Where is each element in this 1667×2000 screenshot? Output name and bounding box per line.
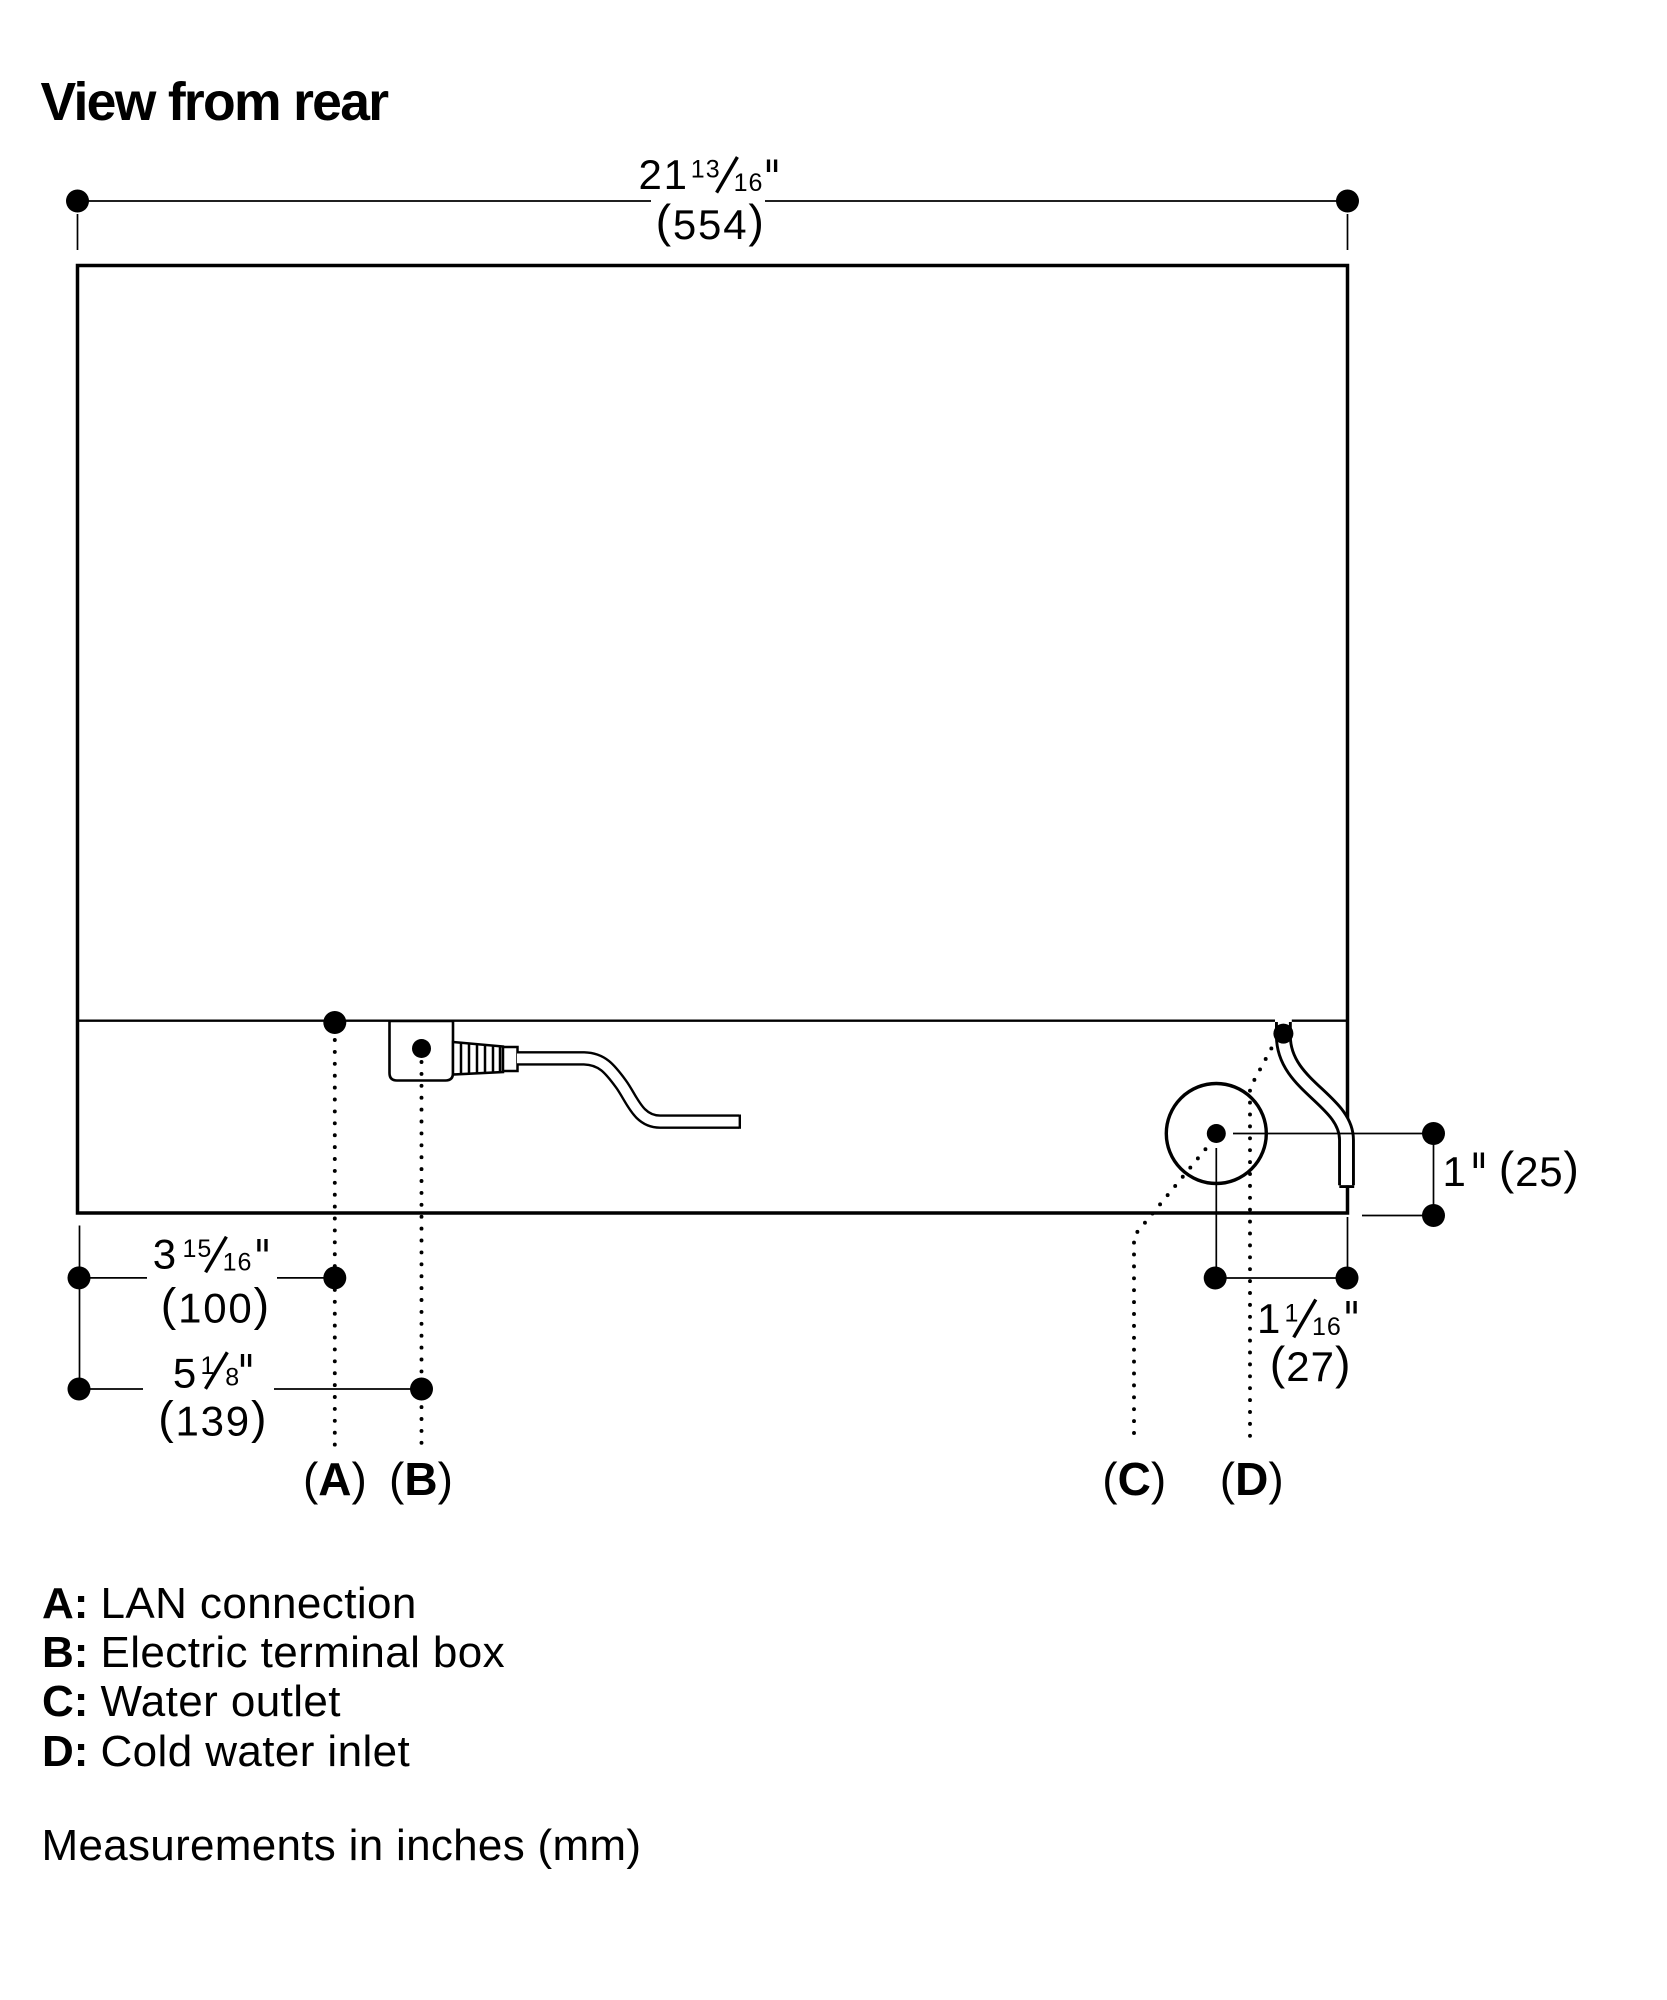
svg-text:(A): (A) — [303, 1453, 367, 1505]
extension line right — [1347, 214, 1349, 250]
power cable end cap — [739, 1115, 741, 1129]
dimension 21 13/16 (554) line left segment — [78, 200, 652, 202]
dim 3 15/16 left dot — [68, 1266, 91, 1289]
svg-text:(C): (C) — [1102, 1453, 1166, 1505]
svg-text:3: 3 — [153, 1231, 176, 1278]
gland ribs — [461, 1043, 500, 1074]
dim 1 inch vertical line — [1433, 1134, 1435, 1216]
svg-text:1: 1 — [1257, 1295, 1280, 1342]
dim 1 inch upper dot — [1422, 1122, 1445, 1145]
svg-text:1: 1 — [1285, 1300, 1299, 1328]
svg-text:1: 1 — [1443, 1148, 1466, 1195]
svg-text:(139): (139) — [158, 1391, 268, 1444]
node D dot on hose — [1273, 1024, 1293, 1044]
svg-text:Measurements in inches (mm): Measurements in inches (mm) — [42, 1821, 642, 1870]
dim 5 1/8 left dot — [68, 1378, 91, 1401]
extension line left — [77, 214, 79, 250]
dimension text 5 1/8" — [173, 1350, 250, 1397]
svg-text:(D): (D) — [1220, 1453, 1284, 1505]
dimension text 1 1/16" — [1257, 1295, 1355, 1342]
svg-text:(554): (554) — [656, 195, 766, 248]
dimension 21 13/16 (554) line right segment — [765, 200, 1348, 202]
dim 1 1/16 left extension from circle center — [1215, 1148, 1217, 1278]
leader D dotted — [1250, 1038, 1277, 1444]
power cable — [517, 1058, 739, 1121]
svg-text:C:: C: — [42, 1677, 88, 1726]
svg-text:8: 8 — [225, 1364, 239, 1392]
svg-text:21: 21 — [639, 151, 689, 198]
leader C dotted — [1134, 1140, 1213, 1444]
dim 5 1/8 line segments — [80, 1388, 422, 1390]
dim 1 inch bottom reference line — [1362, 1215, 1433, 1217]
water outlet C center dot — [1207, 1124, 1226, 1143]
dim 1 1/16 right dot — [1336, 1267, 1359, 1290]
dim 3 15/16 line segments — [80, 1277, 335, 1279]
terminal box B dot — [412, 1039, 431, 1058]
svg-text:D:: D: — [42, 1727, 88, 1776]
dimension text 21 13/16" — [639, 151, 776, 198]
leader B dotted — [420, 1062, 424, 1447]
svg-text:View from rear: View from rear — [41, 73, 390, 132]
svg-text:16: 16 — [223, 1249, 253, 1277]
water outlet C circle — [1166, 1084, 1266, 1184]
dim 1 1/16 left dot — [1204, 1267, 1227, 1290]
dim 3 15/16 right dot — [323, 1266, 346, 1289]
terminal box B — [390, 1021, 454, 1081]
dimension end dot left — [66, 190, 89, 213]
svg-text:13: 13 — [691, 156, 721, 184]
appliance rear panel outline — [78, 266, 1348, 1214]
svg-text:A:: A: — [42, 1579, 88, 1628]
cable gland ribbed connector — [453, 1042, 503, 1075]
svg-text:Electric terminal box: Electric terminal box — [101, 1628, 506, 1677]
dim 1 inch lower dot — [1422, 1204, 1445, 1227]
svg-text:B:: B: — [42, 1628, 88, 1677]
node A (LAN connection) dot — [323, 1011, 346, 1034]
left lower extension line — [79, 1226, 81, 1390]
svg-text:(100): (100) — [161, 1279, 271, 1332]
dim 5 1/8 right dot — [410, 1378, 433, 1401]
svg-text:LAN connection: LAN connection — [101, 1579, 417, 1628]
svg-text:(27): (27) — [1270, 1337, 1352, 1390]
divider line lower panel — [78, 1020, 1348, 1022]
hose tip — [1339, 1185, 1354, 1188]
svg-text:Cold water inlet: Cold water inlet — [101, 1727, 411, 1776]
dimension text 3 15/16" — [153, 1231, 266, 1278]
dim 1 1/16 line — [1215, 1277, 1347, 1279]
dimension text 1" (25) — [1443, 1142, 1580, 1195]
dimension end dot right — [1336, 190, 1359, 213]
gland collar — [503, 1047, 518, 1071]
svg-text:16: 16 — [734, 169, 764, 197]
svg-text:15: 15 — [183, 1235, 213, 1263]
dim line C to right — [1233, 1133, 1434, 1135]
svg-text:(25): (25) — [1499, 1142, 1580, 1195]
svg-text:(B): (B) — [389, 1453, 453, 1505]
svg-text:Water outlet: Water outlet — [101, 1677, 341, 1726]
svg-text:5: 5 — [173, 1350, 196, 1397]
cold water inlet D hose — [1283, 1022, 1346, 1185]
dim 1 1/16 right extension below hose — [1347, 1217, 1349, 1278]
leader A dotted — [333, 1040, 337, 1447]
